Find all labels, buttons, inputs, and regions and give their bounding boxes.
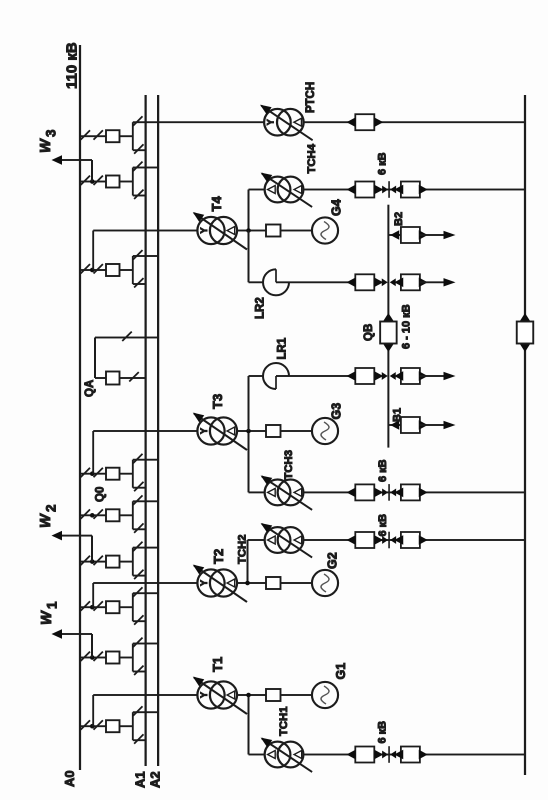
svg-text:Т1: Т1: [210, 657, 225, 672]
svg-text:3: 3: [44, 129, 59, 137]
svg-text:W: W: [38, 513, 54, 528]
svg-text:6 кВ: 6 кВ: [377, 459, 389, 482]
svg-text:QB: QB: [363, 324, 375, 341]
svg-text:А1: А1: [133, 771, 148, 788]
svg-text:В1: В1: [392, 408, 404, 422]
svg-text:W: W: [38, 138, 54, 153]
svg-text:Т2: Т2: [211, 549, 226, 564]
svg-text:LR1: LR1: [277, 337, 289, 359]
svg-text:Y: Y: [266, 119, 276, 125]
svg-text:Y: Y: [199, 580, 209, 586]
svg-text:Y: Y: [199, 227, 209, 233]
svg-text:А0: А0: [62, 770, 77, 787]
svg-text:QA: QA: [84, 380, 96, 397]
svg-text:Q0: Q0: [95, 487, 107, 502]
svg-text:6 кВ: 6 кВ: [377, 152, 389, 175]
svg-text:РТСН: РТСН: [305, 82, 317, 113]
svg-text:1: 1: [45, 601, 60, 609]
svg-text:Y: Y: [199, 428, 209, 434]
svg-text:Т4: Т4: [209, 196, 224, 212]
svg-text:6 кВ: 6 кВ: [377, 721, 389, 744]
svg-text:2: 2: [44, 504, 59, 512]
svg-text:Y: Y: [199, 692, 209, 698]
svg-text:ТСН3: ТСН3: [283, 450, 295, 480]
svg-text:G4: G4: [330, 199, 344, 216]
svg-text:ТСН2: ТСН2: [237, 535, 249, 565]
svg-text:W: W: [39, 610, 55, 625]
svg-text:ТСН4: ТСН4: [306, 143, 318, 173]
svg-text:В2: В2: [393, 212, 405, 226]
svg-text:6 кВ: 6 кВ: [377, 514, 389, 537]
svg-text:А2: А2: [148, 771, 163, 788]
svg-text:ТСН1: ТСН1: [278, 707, 290, 737]
svg-text:Т3: Т3: [210, 394, 225, 409]
svg-text:6 - 10 кВ: 6 - 10 кВ: [401, 304, 413, 349]
svg-text:G3: G3: [330, 403, 344, 420]
svg-text:110 кВ: 110 кВ: [64, 42, 81, 89]
svg-text:G1: G1: [334, 663, 348, 680]
svg-text:G2: G2: [326, 552, 340, 569]
svg-text:LR2: LR2: [255, 297, 267, 319]
